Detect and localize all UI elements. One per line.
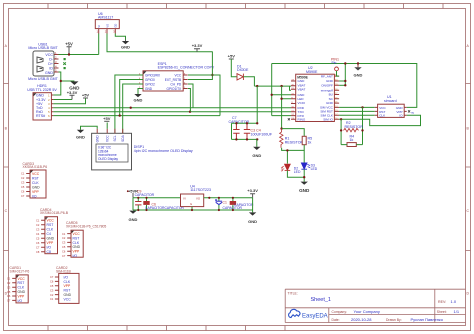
svg-text:VBAT: VBAT [298, 87, 306, 91]
svg-text:C2: C2 [7, 281, 11, 285]
junction gnd loop [357, 62, 359, 64]
wire 3.3V down to ESP RSTB [188, 52, 212, 80]
connector CARD5 [62, 221, 106, 258]
junction onoff [344, 84, 346, 86]
svg-text:GND: GND [18, 290, 26, 294]
svg-text:VPP: VPP [32, 190, 40, 194]
resistor R2 network [340, 107, 364, 146]
wire ESP GPIO1/TX to bus [188, 89, 190, 112]
svg-text:CAPACITOR: CAPACITOR [234, 203, 254, 207]
svg-text:1/1: 1/1 [454, 309, 460, 314]
no-connect vpp [408, 110, 410, 112]
capacitor C5 polarized [143, 197, 149, 211]
svg-text:100UF100UF: 100UF100UF [251, 132, 273, 136]
svg-text:SIM-011B: SIM-011B [56, 269, 72, 273]
svg-text:C7: C7 [7, 299, 11, 303]
regulator U4 [181, 184, 253, 211]
svg-text:ESP8266-01_CONNECTOR COPY: ESP8266-01_CONNECTOR COPY [158, 66, 215, 70]
svg-text:GND: GND [47, 237, 55, 241]
connector HDR1 [27, 84, 57, 120]
wire led feed [286, 150, 288, 163]
wire HDR1 +5V pin to flag [53, 99, 85, 104]
wire left rail drop [132, 198, 134, 210]
junction gnd loop tap [344, 62, 346, 64]
ground sym power right [248, 210, 257, 224]
svg-text:C5: C5 [21, 185, 25, 189]
wire d3 bottom [303, 169, 305, 181]
svg-text:Sheet:: Sheet: [437, 310, 447, 314]
svg-text:C7: C7 [21, 194, 25, 198]
svg-text:C5: C5 [62, 245, 66, 249]
svg-text:4pin I2C monochrome OLED Displ: 4pin I2C monochrome OLED Display [134, 149, 193, 153]
svg-text:XKSIM-011B-P6_C517805: XKSIM-011B-P6_C517805 [66, 225, 106, 229]
junction bus txd [130, 107, 132, 109]
svg-text:RESISTOR: RESISTOR [285, 140, 304, 144]
wire gnd loop top [272, 64, 417, 108]
power flag +3.3V out [247, 188, 258, 198]
wire gnd loop left [272, 64, 291, 116]
wire +5V to diode [231, 59, 237, 77]
svg-text:I/O: I/O [32, 195, 37, 199]
wire OLED VCC [106, 123, 108, 129]
svg-text:SCL: SCL [113, 135, 117, 141]
svg-text:C7: C7 [50, 275, 54, 279]
svg-text:+5V: +5V [65, 41, 73, 46]
svg-text:VPP: VPP [47, 241, 55, 245]
wire u4 gnd [191, 207, 193, 210]
wire SIM RST [339, 110, 375, 112]
svg-text:Drawn By:: Drawn By: [386, 318, 402, 322]
title block border [285, 289, 465, 322]
connector CARD4 [36, 208, 69, 254]
svg-text:C8: C8 [47, 250, 51, 254]
svg-text:CLK: CLK [32, 181, 39, 185]
svg-text:C5: C5 [50, 284, 54, 288]
power flag +3.3V esp [192, 43, 203, 52]
wire power bottom rail [133, 209, 253, 211]
svg-text:VCC: VCC [47, 219, 55, 223]
svg-text:GND: GND [45, 71, 53, 75]
svg-text:D+: D+ [48, 62, 53, 66]
svg-text:C4: C4 [47, 232, 51, 236]
wire bus RxD [53, 111, 291, 113]
svg-text:RF_ANT: RF_ANT [321, 74, 333, 78]
svg-text:1k: 1k [308, 140, 312, 144]
svg-text:CLK: CLK [73, 241, 80, 245]
svg-text:GND: GND [299, 188, 310, 193]
wire U6 pin2 3.3V rail [107, 34, 213, 52]
wire u4 out [204, 197, 253, 199]
wire U2 LED to R network [282, 86, 291, 129]
wire U2 onoff stub [339, 84, 345, 86]
connector CARD3 [21, 162, 47, 199]
capacitor C7b [244, 123, 250, 139]
EasyEDA logo [289, 309, 328, 319]
svg-text:AMS1117: AMS1117 [98, 16, 113, 20]
svg-text:RTS#: RTS# [36, 114, 45, 118]
svg-text:C3: C3 [7, 285, 11, 289]
svg-text:C3: C3 [62, 241, 66, 245]
wire bus RTS [53, 115, 220, 117]
junction vbat1 [256, 85, 258, 87]
svg-text:1k: 1k [350, 138, 354, 142]
ground sym U6 [121, 40, 130, 50]
module ESP1 [139, 62, 215, 91]
svg-text:OLED Display: OLED Display [98, 157, 118, 161]
connector CARD2 [50, 266, 79, 303]
svg-text:+5V: +5V [82, 92, 90, 97]
svg-text:GND: GND [354, 73, 363, 78]
wire cap feed [256, 86, 258, 123]
wire power top rail left [133, 197, 181, 199]
capacitor C7a [233, 123, 239, 139]
ground sym leds [301, 182, 308, 185]
wire U2 gnd stub [339, 80, 345, 82]
wire ESP CH_PD to bus [188, 84, 193, 108]
svg-text:GND: GND [326, 101, 334, 105]
ground sym OLED [76, 130, 85, 140]
svg-text:C7: C7 [62, 254, 66, 258]
svg-text:GPIO1/TX: GPIO1/TX [166, 87, 182, 91]
svg-text:+5V: +5V [103, 116, 111, 121]
svg-text:GND: GND [326, 79, 334, 83]
wire VBAT jog down pin [290, 86, 292, 90]
wire U6 pin3 to ground [115, 34, 125, 40]
resistor R2 zigzag [344, 128, 359, 131]
junction gnd2 [344, 80, 346, 82]
regulator U6 [95, 12, 119, 34]
svg-text:Micro USB-B SMT: Micro USB-B SMT [28, 46, 58, 50]
connector CARD1 [7, 266, 29, 303]
wire VBAT rail to U2 [254, 85, 291, 87]
svg-text:SIM IO: SIM IO [323, 118, 333, 122]
svg-text:GND: GND [252, 153, 261, 158]
wire r4 bottom [341, 144, 362, 146]
resistor R1 network [280, 127, 313, 163]
svg-text:GND: GND [32, 186, 40, 190]
wire diode out to VBAT node [243, 77, 254, 86]
svg-text:USB TTL 232R 5V: USB TTL 232R 5V [27, 88, 57, 92]
svg-text:GND: GND [145, 87, 153, 91]
svg-text:+3.3V: +3.3V [192, 43, 203, 48]
svg-text:CLK: CLK [47, 228, 54, 232]
svg-text:VCC: VCC [106, 135, 110, 142]
svg-text:C1: C1 [7, 277, 11, 281]
svg-text:RST: RST [32, 177, 39, 181]
svg-text:SIM-011T-P6: SIM-011T-P6 [10, 269, 30, 273]
diode D1 [237, 64, 249, 80]
svg-text:REV:: REV: [438, 300, 446, 304]
svg-text:SDA: SDA [121, 134, 125, 141]
svg-text:RST: RST [47, 223, 54, 227]
display DISP1 [92, 129, 193, 170]
wire out rail drop [252, 198, 254, 210]
svg-text:C7: C7 [36, 246, 40, 250]
svg-text:VPP: VPP [18, 294, 26, 298]
svg-text:CLK: CLK [64, 280, 71, 284]
svg-text:C6: C6 [21, 190, 25, 194]
svg-text:GND: GND [121, 45, 130, 50]
svg-text:C1: C1 [21, 172, 25, 176]
svg-text:GND: GND [96, 135, 100, 143]
svg-text:GPIO3/RX: GPIO3/RX [145, 73, 161, 77]
power flag +5V oled [103, 116, 111, 122]
svg-text:GND: GND [298, 79, 306, 83]
wire ESP GPIO2 to OLED SDA [123, 84, 143, 133]
ground sym caps [253, 147, 260, 150]
LED D3 [299, 150, 318, 193]
svg-text:C6: C6 [36, 241, 40, 245]
wire SIM CLK [339, 114, 375, 116]
svg-text:C1: C1 [50, 297, 54, 301]
svg-text:GND: GND [134, 97, 143, 102]
svg-text:XKSIM-011B-P6-B: XKSIM-011B-P6-B [40, 211, 69, 215]
net flag +5VR [127, 188, 138, 197]
wire HDR1 +3.3V pin to flag [53, 99, 72, 101]
svg-text:I/O: I/O [47, 246, 52, 250]
wire ESP GPIO3/RX to OLED SCL [115, 75, 143, 133]
svg-text:RST: RST [73, 236, 80, 240]
svg-text:VCIO: VCIO [298, 101, 306, 105]
svg-text:C2: C2 [62, 236, 66, 240]
resistor R5 [302, 136, 306, 144]
svg-text:C6: C6 [7, 294, 11, 298]
no-connect usb data pins [64, 58, 66, 60]
svg-text:C6: C6 [50, 280, 54, 284]
svg-text:VCC: VCC [73, 232, 81, 236]
power flag +5V hdr [82, 92, 90, 98]
svg-text:CLK: CLK [379, 114, 386, 118]
ground sym loop [354, 64, 363, 78]
svg-text:C1: C1 [36, 219, 40, 223]
svg-text:GPIO2: GPIO2 [145, 82, 155, 86]
no-connect RING [288, 118, 290, 120]
power flag +3.3V [67, 90, 78, 100]
ground sym power left [129, 211, 138, 223]
svg-text:XKSIM-011B-P6: XKSIM-011B-P6 [23, 165, 48, 169]
svg-text:VO: VO [105, 24, 109, 28]
wire ESP VCC to RTS bus [188, 75, 220, 116]
wire r bottom rail [282, 145, 305, 151]
wire d2 bottom [287, 170, 304, 177]
wire U2 gnd up to loop [344, 64, 346, 86]
wire pin1 to rf_ant [337, 71, 340, 76]
wire SIM IO [339, 115, 420, 125]
svg-text:VCC: VCC [32, 172, 40, 176]
wire r2 right vert [362, 107, 364, 144]
resistor R1 zigzag [280, 129, 283, 148]
svg-text:GND: GND [73, 245, 81, 249]
svg-text:EXT_RSTB: EXT_RSTB [165, 78, 181, 82]
svg-text:GND: GND [64, 293, 72, 297]
svg-text:VPP: VPP [64, 284, 72, 288]
wire ESP GND [138, 89, 143, 95]
svg-text:1117SOT223: 1117SOT223 [190, 188, 211, 192]
svg-text:Date:: Date: [332, 318, 340, 322]
svg-text:simcard: simcard [384, 99, 397, 103]
wire cap bottom rail [232, 138, 258, 140]
svg-text:C1: C1 [62, 232, 66, 236]
svg-text:Company:: Company: [332, 310, 348, 314]
wire bus TxD [53, 107, 291, 109]
svg-text:C3: C3 [36, 228, 40, 232]
power flag +5V diode [228, 53, 236, 59]
svg-text:C2: C2 [21, 176, 25, 180]
svg-text:CAPACITOR: CAPACITOR [135, 193, 155, 197]
junction led pin [280, 98, 282, 100]
svg-text:GPIO0: GPIO0 [145, 78, 155, 82]
wire cap left leg [231, 123, 233, 139]
svg-text:C1: C1 [223, 200, 227, 204]
svg-text:Your Company: Your Company [354, 309, 380, 314]
junction sim vcc r2 [361, 106, 363, 108]
wire USB VCC to U6 pin1 [59, 34, 99, 55]
svg-text:VI: VI [97, 25, 101, 28]
svg-text:VCC: VCC [64, 297, 72, 301]
svg-text:Pin: Pin [332, 61, 337, 65]
junction gpio0-bus [119, 114, 121, 116]
wire r1 top rail [282, 129, 305, 137]
svg-text:M590E: M590E [306, 70, 318, 74]
ground sym USB [69, 81, 80, 90]
svg-text:VI: VI [183, 196, 186, 200]
svg-text:C2: C2 [36, 223, 40, 227]
svg-text:1.0: 1.0 [451, 299, 457, 304]
svg-text:LED: LED [311, 167, 318, 171]
svg-text:C8: C8 [36, 250, 40, 254]
svg-text:LED: LED [294, 170, 301, 174]
svg-text:VCC: VCC [174, 73, 181, 77]
junction gnd node [60, 80, 62, 82]
svg-text:I/O: I/O [64, 275, 69, 279]
wire DTR jog [272, 115, 291, 117]
svg-text:GND: GND [129, 217, 138, 222]
svg-text:RING: RING [298, 118, 306, 122]
svg-text:TITLE:: TITLE: [288, 291, 298, 295]
svg-text:DIODE: DIODE [237, 68, 249, 72]
wire ESP GPIO0 down [120, 80, 143, 116]
capacitor C2 polarized blue [215, 197, 222, 211]
svg-text:VPP: VPP [73, 250, 81, 254]
svg-text:GND: GND [248, 219, 257, 224]
connector USB1 [28, 42, 59, 80]
svg-text:VCC: VCC [18, 277, 26, 281]
frame row ticks right [466, 84, 471, 251]
ground sym ESP [134, 94, 143, 102]
svg-text:C6: C6 [62, 249, 66, 253]
wire cap top rail [232, 122, 258, 124]
svg-text:nc: nc [411, 110, 415, 114]
simcard U1 [375, 95, 415, 117]
svg-text:RESISTOR: RESISTOR [345, 125, 364, 129]
frame column ticks bottom [48, 326, 285, 331]
svg-text:GD: GD [114, 24, 118, 28]
svg-text:+3.3V: +3.3V [67, 90, 78, 95]
wire r2 left vert [340, 119, 342, 144]
module U2 M590E [291, 66, 339, 122]
svg-text:C5: C5 [36, 237, 40, 241]
svg-text:VCC: VCC [45, 53, 53, 57]
wire cap gnd stub [256, 139, 258, 146]
svg-text:2020-10-28: 2020-10-28 [351, 317, 372, 322]
frame column ticks top [48, 4, 443, 9]
junction bus rxd [189, 111, 191, 113]
power flag +5V above USB VCC [65, 41, 73, 54]
junction vbat2 [280, 85, 282, 87]
wire SIM VCC [339, 106, 375, 108]
svg-text:C3: C3 [21, 181, 25, 185]
svg-text:GND: GND [36, 94, 44, 98]
capacitor C6 [135, 197, 141, 211]
svg-text:CH_PD: CH_PD [170, 82, 182, 86]
svg-text:ON/OFF: ON/OFF [321, 83, 333, 87]
connector PIN1 [331, 58, 339, 77]
svg-text:Руслан Павленко: Руслан Павленко [411, 317, 444, 322]
svg-text:IO: IO [399, 114, 403, 118]
svg-text:+3.3V: +3.3V [247, 188, 258, 193]
svg-text:RST: RST [18, 281, 25, 285]
LED D2 [282, 164, 305, 177]
wire HDR1 GND pin up to gnd node [53, 81, 74, 95]
svg-text:Sheet_1: Sheet_1 [311, 297, 332, 303]
capacitor C1 polarized red [230, 197, 236, 211]
junction gnd-dtr [271, 94, 273, 96]
svg-text:C2: C2 [50, 293, 54, 297]
svg-text:C4: C4 [36, 232, 40, 236]
svg-text:C3: C3 [50, 288, 54, 292]
svg-text:CLK: CLK [18, 286, 25, 290]
wire USB GND down to gnd node [59, 72, 61, 81]
svg-text:GND: GND [76, 135, 85, 140]
wire OLED GND [81, 126, 98, 130]
junction esp vcc cross [211, 74, 213, 76]
svg-text:RST: RST [64, 289, 71, 293]
junction r1 top [280, 127, 282, 129]
svg-text:G: G [190, 202, 192, 206]
svg-text:EasyEDA: EasyEDA [302, 314, 328, 320]
junction sim io r2 [340, 118, 342, 120]
svg-text:I/O: I/O [73, 254, 78, 258]
svg-text:CAPACITORCAPACITOR: CAPACITORCAPACITOR [145, 206, 184, 210]
svg-text:Micro USB-B GMT: Micro USB-B GMT [28, 77, 59, 81]
frame row ticks left [4, 84, 9, 251]
junction +5V/VCC [68, 53, 70, 55]
svg-text:+5V: +5V [228, 53, 236, 58]
svg-text:I/O: I/O [18, 299, 23, 303]
svg-text:C5: C5 [7, 290, 11, 294]
capacitor bank C7 [229, 86, 273, 158]
